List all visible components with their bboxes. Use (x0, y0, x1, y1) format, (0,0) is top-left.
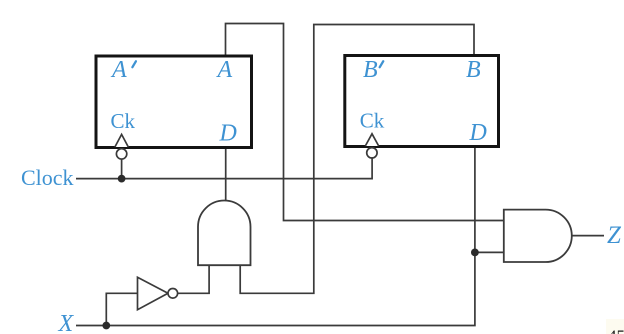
svg-text:B: B (363, 57, 378, 83)
clock bubble U2 (367, 148, 377, 158)
wire: output AND gate to Z (572, 235, 604, 237)
page number 45 (clipped at bottom right) (606, 319, 624, 334)
wire: inverter output to middle AND left input (178, 266, 209, 294)
clock triangle U2 (365, 134, 378, 146)
wire: B output top route (FF B top to middle AND right input) (240, 25, 474, 294)
AND gate G1 (middle, pointing up) (198, 201, 251, 266)
svg-text:D: D (469, 120, 487, 146)
wire: FF A clock stub (121, 159, 123, 178)
svg-text:B: B (466, 57, 481, 83)
clock bubble U1 (116, 149, 126, 159)
svg-text:Z: Z (607, 222, 622, 249)
clock triangle U1 (115, 134, 128, 147)
wire: inverter input stub (106, 293, 137, 325)
wire: X line (X to FF B D input) (76, 147, 475, 326)
inverter G2 triangle (138, 277, 169, 309)
flip-flop U2 (B) body (345, 56, 499, 147)
wire: A output top route (FF A top to output AND top input) (226, 24, 504, 221)
wire: branch to output AND bottom input (475, 251, 504, 253)
wire: middle AND output to FF A D input (225, 147, 227, 201)
junction dot: clock at FF A (118, 175, 126, 183)
svg-text:Ck: Ck (360, 109, 385, 133)
svg-text:Clock: Clock (21, 165, 74, 190)
AND gate G3 (output, pointing right) (504, 210, 572, 262)
svg-text:X: X (58, 311, 75, 334)
svg-text:45: 45 (608, 327, 624, 334)
svg-text:A: A (216, 57, 233, 83)
wire: clock line (76, 159, 372, 179)
junction dot: D/X line at output AND branch (471, 249, 479, 257)
svg-text:D: D (219, 121, 237, 147)
inverter G2 bubble (168, 289, 178, 299)
svg-text:Ck: Ck (111, 109, 136, 133)
flip-flop U1 (A) body (96, 56, 252, 148)
junction dot: X at inverter stub (102, 322, 110, 330)
svg-text:A: A (110, 57, 127, 83)
